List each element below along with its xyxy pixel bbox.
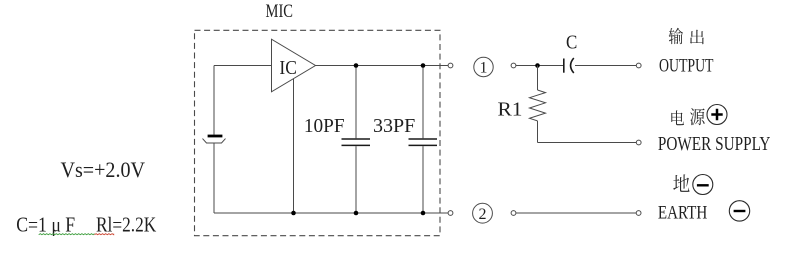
microphone capsule MIC element: flat plate <box>208 135 223 138</box>
terminal: module output pin <box>448 63 453 68</box>
label 地 (di) <box>673 174 689 192</box>
terminal: external node 1 left <box>511 63 516 68</box>
pin number 1 (circled) <box>474 57 493 76</box>
terminal: EARTH <box>636 211 641 216</box>
label 出 (chu) <box>690 30 704 44</box>
capacitor C: curved plate <box>571 58 574 73</box>
svg-text:R1: R1 <box>498 99 523 121</box>
svg-text:C: C <box>566 32 577 54</box>
svg-text:C=1 μ F: C=1 μ F <box>16 212 75 236</box>
junction: C1 top / output rail <box>354 63 359 68</box>
symbol: circled plus (positive supply) <box>707 105 727 125</box>
wire: bottom ground rail <box>214 212 448 214</box>
capacitor C1 10PF: plates <box>342 139 371 145</box>
capacitor C: straight plate <box>563 59 565 73</box>
capacitor C1 10PF: top lead <box>355 66 357 139</box>
wire: IC ground lead <box>293 79 295 213</box>
capacitor C1 10PF: bottom lead <box>355 146 357 213</box>
label 输 (shu) <box>669 28 683 44</box>
wire: node 2 to EARTH terminal <box>516 212 636 214</box>
squiggly underline (green) <box>39 234 95 235</box>
symbol: circled minus (after 地) <box>693 175 713 195</box>
label 源 (yuan) <box>690 108 705 125</box>
svg-text:POWER SUPPLY: POWER SUPPLY <box>658 133 771 155</box>
svg-text:EARTH: EARTH <box>658 202 708 223</box>
svg-text:Rl=2.2K: Rl=2.2K <box>96 212 156 236</box>
wire: R1 to POWER SUPPLY terminal <box>538 142 637 144</box>
svg-text:IC: IC <box>279 57 297 79</box>
pin number 2 (circled) <box>473 203 493 223</box>
wire: left rail lower segment <box>213 143 215 213</box>
squiggly underline (red) <box>95 234 114 235</box>
label 电 (dian) <box>671 110 684 125</box>
wire: capacitor C to OUTPUT terminal <box>575 65 636 67</box>
wire: node 1 to capacitor C <box>516 65 563 67</box>
resistor R1: top lead <box>537 66 539 91</box>
junction: C2 bottom / bottom rail <box>421 211 426 216</box>
resistor R1: bottom lead <box>537 121 539 143</box>
svg-text:OUTPUT: OUTPUT <box>659 55 714 76</box>
microphone capsule MIC element: curved plate <box>203 139 226 143</box>
terminal: OUTPUT <box>636 63 641 68</box>
junction: R1 tap on output wire <box>535 63 540 68</box>
symbol: circled minus (after EARTH) <box>729 201 749 221</box>
junction: C2 top / output rail <box>421 63 426 68</box>
junction: IC ground / bottom rail <box>291 211 296 216</box>
resistor R1: zigzag body <box>530 90 546 121</box>
capacitor C2 33PF: bottom lead <box>422 146 424 213</box>
svg-text:2: 2 <box>479 206 487 223</box>
svg-text:1: 1 <box>480 60 488 77</box>
MIC module dashed enclosure <box>195 30 441 235</box>
terminal: external node 2 left <box>511 211 516 216</box>
capacitor C2 33PF: top lead <box>422 66 424 139</box>
wire: left rail upper segment <box>213 66 215 135</box>
capacitor C2 33PF: plates <box>409 139 438 145</box>
wire: IC input from left rail <box>214 65 272 67</box>
op-amp U1 (IC buffer triangle) <box>272 39 316 92</box>
svg-text:10PF: 10PF <box>304 115 345 137</box>
junction: C1 bottom / bottom rail <box>354 211 359 216</box>
svg-text:33PF: 33PF <box>373 115 415 137</box>
terminal: POWER SUPPLY <box>636 140 641 145</box>
svg-text:MIC: MIC <box>266 1 294 22</box>
svg-text:Vs=+2.0V: Vs=+2.0V <box>61 157 146 182</box>
wire: IC output rail to terminal <box>316 65 449 67</box>
terminal: module ground pin <box>448 211 453 216</box>
